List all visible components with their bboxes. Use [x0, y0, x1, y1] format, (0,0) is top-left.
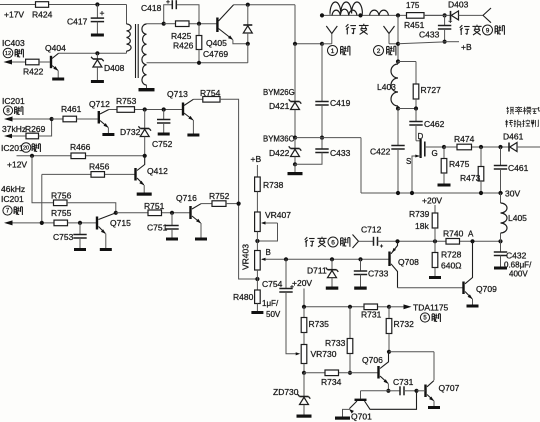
svg-text:Q713: Q713 [167, 89, 188, 99]
node junction L405 bottom [498, 239, 502, 243]
wire R756 to Q715 [67, 203, 116, 213]
capacitor C433 lower [295, 138, 351, 165]
svg-text:R738: R738 [263, 180, 284, 190]
svg-text:C432: C432 [506, 251, 527, 261]
wire R731 rail [304, 306, 389, 308]
node junction gate [442, 145, 446, 149]
capacitor C712 [359, 225, 398, 248]
resistor R740 [443, 229, 464, 245]
node junction L403 top [396, 59, 400, 63]
capacitor C753 [53, 223, 87, 248]
svg-text:A: A [468, 230, 474, 239]
node junction C731 right [414, 389, 418, 393]
svg-text:R752: R752 [209, 191, 230, 201]
resistor R727 [413, 84, 441, 109]
svg-text:D421: D421 [269, 101, 290, 111]
capacitor C432 [494, 241, 532, 278]
wire secondary top [147, 23, 164, 25]
node junction C433 top [443, 13, 447, 17]
node junction C422 bottom [396, 191, 400, 195]
capacitor C754 [262, 259, 300, 355]
transistor Q716 [176, 193, 201, 223]
svg-text:R739: R739 [409, 209, 430, 219]
node junction R732 top [387, 305, 391, 309]
svg-text:Q707: Q707 [439, 383, 460, 393]
wire A rail [398, 240, 501, 242]
transistor Q708 [388, 241, 419, 287]
svg-text:C752: C752 [152, 139, 173, 149]
resistor R754 [193, 88, 220, 102]
node junction R426 bottom [197, 61, 201, 65]
resistor R753 [116, 96, 137, 112]
capacitor C751 [147, 213, 179, 238]
ground C733 [354, 287, 367, 290]
svg-text:S: S [406, 157, 411, 166]
transistor Q701 [343, 391, 417, 422]
svg-text:R425: R425 [171, 31, 192, 41]
svg-text:R731: R731 [361, 310, 382, 320]
label IC403 [2, 38, 25, 48]
label +B [461, 42, 472, 52]
svg-text:+B: +B [461, 42, 472, 52]
svg-text:C433: C433 [330, 148, 351, 158]
inductor L403 [377, 62, 398, 109]
svg-text:+20V: +20V [422, 196, 442, 206]
svg-text:12: 12 [5, 51, 11, 57]
capacitor C422 [370, 109, 405, 194]
svg-text:ZD730: ZD730 [273, 387, 299, 397]
signal arrow pin12 [4, 60, 26, 65]
inductor flyback winding upper [330, 2, 362, 15]
svg-text:VR730: VR730 [311, 349, 337, 359]
pin 1 label [328, 46, 350, 56]
resistor R728 [432, 241, 461, 276]
svg-text:R473: R473 [460, 173, 481, 183]
capacitor C419 [315, 44, 350, 138]
resistor R474 [454, 134, 475, 150]
potentiometer VR403 [241, 244, 261, 270]
node junction R473 top [479, 145, 483, 149]
label G gate [432, 149, 438, 158]
zener D408 [91, 53, 124, 80]
label S source [406, 157, 411, 166]
node junction D732 top [143, 107, 147, 111]
pin 12 label [3, 48, 23, 58]
capacitor C462 [409, 109, 444, 141]
svg-text:C733: C733 [368, 269, 389, 279]
ground Q713 [187, 134, 199, 137]
label IC201 pin7 [1, 194, 24, 215]
svg-text:D403: D403 [448, 0, 469, 10]
wire Q706 emitter [387, 384, 389, 391]
wire Q707 emitter gnd [433, 401, 435, 406]
node junction Q708 emitter [395, 239, 399, 243]
resistor R733 [325, 307, 353, 373]
svg-text:G: G [432, 149, 438, 158]
ground Q701 [335, 417, 350, 420]
svg-text:Q712: Q712 [89, 99, 110, 109]
resistor R425 [171, 21, 192, 41]
resistor R456 [89, 162, 110, 178]
resistor R426 [173, 24, 202, 63]
node junction +B rail [443, 40, 447, 44]
ground C432 [494, 267, 507, 270]
wire R734 row [304, 372, 378, 374]
node junction C754 top [284, 257, 288, 261]
capacitor C733 [354, 259, 389, 286]
svg-text:R475: R475 [449, 159, 470, 169]
wire R451 to D403 [424, 14, 451, 16]
ground Q404 [52, 78, 64, 81]
inductor flyback winding right [370, 10, 389, 15]
wire +17V rail [0, 5, 127, 25]
wire Q404 collector [59, 51, 127, 53]
wire +20V feed [303, 289, 305, 307]
node junction coil right [396, 13, 400, 17]
zener D732 [120, 110, 151, 156]
wire R732 to Q707 [389, 352, 434, 380]
svg-text:L405: L405 [508, 213, 527, 223]
svg-text:R753: R753 [116, 96, 137, 106]
svg-text:2: 2 [377, 48, 381, 55]
node junction R735 top [302, 305, 306, 309]
svg-text:D408: D408 [104, 63, 125, 73]
resistor R269 [25, 119, 52, 139]
ground Q707 [428, 406, 440, 409]
node junction D711 top [330, 257, 334, 261]
ground C417 [91, 34, 104, 37]
signal arrow pin8 [4, 117, 52, 122]
node junction emitter [246, 42, 250, 46]
svg-text:Q701: Q701 [351, 412, 372, 422]
zener ZD730 [273, 373, 310, 415]
ground Q412 [137, 193, 152, 196]
wire D403 to connector [459, 14, 484, 16]
svg-text:30V: 30V [505, 189, 520, 199]
svg-text:1: 1 [331, 48, 335, 55]
resistor R473 [460, 147, 484, 193]
svg-text:IC403: IC403 [2, 38, 25, 48]
svg-text:D422: D422 [269, 148, 290, 158]
svg-text:+20V: +20V [292, 278, 312, 288]
node +17V label [4, 10, 24, 20]
resistor R475 [441, 147, 469, 184]
flyback tap Y2 [384, 26, 399, 44]
wire Q708 collector [398, 287, 464, 289]
node junction C751 top [170, 211, 174, 215]
wire secondary tap rail [147, 62, 248, 64]
ground Q712 [102, 133, 114, 136]
wire Q405 emitter [233, 40, 248, 44]
svg-text:R755: R755 [51, 208, 72, 218]
svg-text:Q404: Q404 [45, 43, 66, 53]
svg-text:Q709: Q709 [476, 284, 497, 294]
resistor R424 [32, 2, 53, 20]
svg-text:R424: R424 [32, 10, 53, 20]
connector flyback pin6 [353, 235, 359, 249]
node junction R480 top [255, 270, 259, 290]
node junction mid left [293, 136, 297, 140]
node junction C753 top [78, 221, 82, 225]
node junction coil mid [358, 13, 362, 17]
potentiometer VR730 [301, 345, 337, 373]
ground Q709 [467, 305, 479, 308]
wire R754 to bus [220, 99, 257, 279]
svg-text:B: B [266, 248, 271, 257]
ground T401 secondary [139, 88, 155, 91]
ground C753 [74, 248, 86, 251]
node junction C461 top [498, 145, 502, 149]
svg-text:37kHz: 37kHz [2, 124, 26, 134]
label IC201 pin20 [1, 143, 40, 153]
node junction R425 left [162, 22, 166, 26]
wire collector down to pin1 [295, 5, 322, 44]
transistor Q404 [45, 43, 66, 71]
wire R422 to Q404 [39, 61, 50, 63]
svg-text:R733: R733 [325, 338, 346, 348]
resistor R480 [233, 290, 260, 311]
svg-text:175: 175 [406, 1, 420, 10]
node junction D732 bottom [143, 154, 147, 158]
connector flyback pin9 [483, 8, 491, 23]
svg-text:R756: R756 [51, 191, 72, 201]
label flyback pin6 [305, 237, 350, 247]
svg-text:VR403: VR403 [241, 244, 251, 270]
node junction R473 bottom [479, 191, 483, 195]
label flyback [346, 24, 369, 35]
wire pin1 down [294, 44, 296, 102]
transistor Q709 [462, 241, 497, 299]
node junction pin2 [396, 42, 400, 46]
transistor Q412 [134, 156, 168, 185]
capacitor C417 [67, 5, 104, 34]
label 46kHz [1, 184, 25, 194]
node junction R733 bottom [348, 371, 352, 375]
svg-text:R754: R754 [200, 88, 221, 98]
wire pin1 to Y1 [322, 43, 332, 45]
wire R753 row [109, 109, 183, 111]
svg-text:R734: R734 [321, 377, 342, 387]
svg-text:R474: R474 [454, 134, 475, 144]
svg-text:C4769: C4769 [203, 49, 228, 59]
svg-text:Q412: Q412 [147, 166, 168, 176]
svg-text:IC201: IC201 [2, 96, 25, 106]
node junction D408 top [95, 51, 99, 55]
node junction C731 left [386, 389, 390, 393]
node junction R739 bottom [433, 239, 437, 243]
wire mid node [295, 138, 361, 193]
wiper VR403 [261, 258, 286, 261]
potentiometer VR407 [255, 210, 292, 241]
ground ZD730 [297, 415, 312, 418]
svg-text:C433: C433 [419, 30, 440, 40]
ground D711 [326, 287, 339, 290]
resistor R461 [52, 104, 98, 122]
svg-text:L403: L403 [377, 82, 396, 92]
resistor R735 [301, 307, 329, 345]
wire +B rail [398, 42, 459, 44]
signal arrow pin7 [4, 220, 54, 225]
label BYM26G [263, 88, 295, 97]
node junction R732 bottom [387, 350, 391, 354]
svg-text:9: 9 [486, 27, 490, 34]
transistor Q707 [417, 381, 460, 402]
node junction A [468, 230, 475, 244]
ground R480 [251, 311, 263, 314]
node junction D422 bottom [293, 162, 297, 166]
svg-text:C417: C417 [67, 17, 88, 27]
capacitor C752 [152, 110, 173, 150]
svg-text:0.68μF/: 0.68μF/ [504, 261, 532, 270]
node junction +12V [30, 154, 34, 158]
svg-text:1μF/: 1μF/ [262, 299, 279, 308]
resistor R451 [404, 1, 425, 30]
svg-text:C418: C418 [141, 3, 162, 13]
svg-text:BYM36C: BYM36C [263, 135, 295, 144]
svg-text:+B: +B [251, 154, 262, 164]
svg-text:VR407: VR407 [265, 210, 291, 220]
svg-text:C422: C422 [370, 147, 391, 157]
transformer T401 primary [127, 24, 132, 51]
svg-text:D461: D461 [503, 132, 524, 142]
resistor R752 [201, 191, 239, 206]
svg-text:R480: R480 [233, 292, 254, 302]
node junction coil left [320, 13, 324, 17]
svg-text:C461: C461 [508, 163, 529, 173]
label IC201 pin8 [2, 96, 25, 115]
label BYM36C [263, 135, 295, 144]
svg-text:Q706: Q706 [362, 355, 383, 365]
svg-text:50V: 50V [266, 310, 281, 319]
wire Q712 emitter gnd [107, 127, 109, 133]
svg-text:BYM26G: BYM26G [263, 88, 295, 97]
capacitor C433 top [419, 15, 452, 41]
svg-text:R269: R269 [25, 124, 46, 134]
capacitor C731 [388, 377, 416, 395]
label +20V right [422, 196, 442, 214]
label flyback pin9 [460, 25, 505, 35]
svg-text:R732: R732 [394, 319, 415, 329]
ground D422 [288, 164, 303, 175]
diode damper Q405 [243, 5, 252, 44]
transformer T401 secondary [142, 24, 147, 88]
node junction Q715 collector [114, 211, 118, 215]
svg-text:C751: C751 [147, 223, 168, 233]
ground Q716 [195, 238, 207, 241]
svg-text:IC201: IC201 [1, 143, 24, 153]
node junction mid right [320, 136, 324, 140]
resistor R466 [70, 142, 91, 159]
resistor R734 [321, 370, 342, 387]
node junction D405 top [246, 3, 250, 7]
svg-text:R740: R740 [443, 229, 464, 239]
label 30V [505, 189, 520, 199]
svg-text:D711: D711 [307, 266, 327, 276]
inductor flyback winding mid [332, 9, 357, 15]
resistor R732 [386, 307, 414, 352]
node junction C752 top [162, 107, 166, 111]
resistor R422 [23, 59, 44, 76]
resistor R751 [144, 201, 165, 216]
resistor R756 [51, 191, 72, 206]
svg-text:400V: 400V [509, 270, 528, 279]
svg-text:6: 6 [331, 239, 335, 246]
svg-text:18k: 18k [415, 221, 429, 231]
node junction R425 right [197, 22, 201, 26]
wire Q715 emitter gnd [105, 234, 107, 248]
label +12V [7, 160, 27, 170]
signal arrow R269 [4, 134, 26, 139]
svg-text:R751: R751 [144, 201, 165, 211]
wire R751 row [116, 212, 191, 214]
label 37kHz [2, 124, 26, 134]
svg-text:C712: C712 [361, 225, 382, 235]
wire Q404 emitter gnd [57, 70, 59, 77]
wire pin20 row [17, 155, 145, 157]
diode D461 [503, 132, 540, 152]
svg-text:R728: R728 [441, 250, 462, 260]
node junction R752 right [237, 202, 241, 206]
diode D403 [448, 0, 469, 20]
zener D711 [307, 259, 338, 286]
node junction C733 top [358, 257, 362, 261]
wire R456 row [42, 174, 136, 223]
wire flyback top rail [322, 14, 445, 16]
ground C751 [166, 238, 178, 241]
wire +12V down [32, 156, 54, 203]
svg-text:TDA1175: TDA1175 [413, 303, 449, 313]
svg-text:R727: R727 [421, 85, 442, 95]
svg-text:46kHz: 46kHz [1, 184, 25, 194]
label +B mid [251, 154, 262, 164]
resistor R738 [255, 165, 284, 212]
transistor Q713 [167, 89, 193, 120]
resistor R739 [409, 209, 438, 241]
wire gate row [444, 146, 509, 148]
svg-text:20: 20 [23, 145, 29, 151]
wire Q412 emitter gnd [143, 185, 145, 193]
inductor L405 [501, 193, 528, 241]
svg-text:C754: C754 [262, 279, 283, 289]
transistor Q715 [96, 213, 131, 234]
svg-text:R422: R422 [23, 67, 44, 77]
node junction R456 tap [40, 221, 44, 225]
wire base row [164, 23, 218, 25]
ground R475 [438, 184, 451, 187]
label freq mode [505, 107, 540, 128]
ground Q715 [100, 248, 112, 251]
wire emitter to tap rail [247, 44, 249, 63]
svg-text:C731: C731 [393, 377, 414, 387]
node junction 30V right [498, 191, 502, 195]
svg-text:D732: D732 [120, 127, 141, 137]
wire Q713 emitter gnd [192, 120, 194, 134]
svg-text:R461: R461 [61, 104, 82, 114]
zener D422 [269, 138, 301, 165]
node junction L403 bottom [396, 106, 416, 110]
ground R728 [429, 276, 441, 279]
wire B line [286, 258, 389, 260]
svg-text:IC201: IC201 [1, 194, 24, 204]
capacitor C418 [141, 0, 199, 24]
transistor Q405 [203, 5, 234, 59]
wire Q716 emitter gnd [200, 223, 202, 238]
node junction pin1 b [320, 42, 324, 46]
wire 30V rail [361, 192, 503, 194]
node junction pin1 a [293, 42, 297, 46]
svg-text:R466: R466 [70, 142, 91, 152]
transformer T401 core [136, 24, 139, 78]
